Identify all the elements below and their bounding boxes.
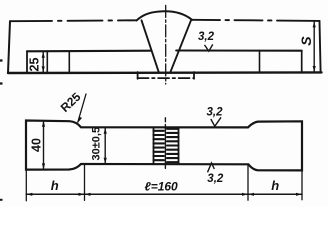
extension line left end bbox=[25, 171, 27, 201]
chain line: top surface of plate blank, left of weld cap bbox=[10, 19, 137, 22]
backing strip bottom (chain) bbox=[138, 77, 194, 79]
dimension 30±0,5 line bbox=[104, 128, 106, 163]
dimension line h / l=160 / h bbox=[26, 193, 302, 195]
check mark (top view) bbox=[205, 44, 213, 51]
svg-text:40: 40 bbox=[30, 138, 44, 152]
svg-text:3,2: 3,2 bbox=[207, 107, 224, 119]
svg-text:S: S bbox=[298, 36, 314, 46]
arrowheads h right bbox=[248, 193, 254, 196]
bottom line of plate / specimen strip bbox=[8, 71, 322, 74]
cut line at x=47 bbox=[46, 51, 48, 73]
specimen centerline (chain) bbox=[164, 118, 166, 169]
specimen strip left end bbox=[26, 51, 28, 73]
dimension S line bbox=[313, 22, 315, 71]
arrowheads dim S bbox=[313, 21, 316, 27]
extension line right fillet bbox=[247, 165, 249, 200]
arrowheads l=160 bbox=[85, 193, 91, 196]
page edge artifact upper bbox=[0, 61, 3, 84]
check mark (bottom view, below) bbox=[208, 163, 215, 172]
backing strip right edge bbox=[193, 72, 195, 79]
right edge of plate blank bbox=[320, 21, 321, 73]
cut line at x=259 bbox=[259, 51, 261, 73]
weld groove right edge bbox=[170, 20, 191, 72]
weld groove left edge bbox=[142, 20, 159, 72]
svg-text:30±0,5: 30±0,5 bbox=[91, 127, 103, 161]
dimension 25 line bbox=[42, 52, 44, 72]
specimen strip top edge, right of weld bbox=[176, 49, 302, 51]
svg-text:3,2: 3,2 bbox=[207, 173, 224, 185]
svg-text:3,2: 3,2 bbox=[198, 31, 215, 43]
cut line at x=69 bbox=[68, 51, 70, 73]
svg-text:h: h bbox=[51, 178, 59, 193]
svg-text:ℓ=160: ℓ=160 bbox=[145, 179, 179, 193]
specimen strip top edge, left of weld bbox=[27, 50, 151, 53]
arrowheads dim 30 bbox=[104, 128, 107, 134]
weld zone right edge bbox=[178, 127, 180, 164]
extension line right end bbox=[301, 170, 303, 199]
weld zone left edge bbox=[153, 127, 155, 164]
backing strip left edge bbox=[137, 72, 139, 79]
svg-text:25: 25 bbox=[27, 58, 41, 72]
left edge of plate bbox=[8, 21, 10, 73]
svg-text:h: h bbox=[271, 178, 279, 193]
chain line: top surface of plate blank, right of weld cap bbox=[192, 20, 320, 21]
arrowheads dim 40 bbox=[42, 121, 45, 127]
weld cap (reinforcement dome) bbox=[137, 11, 193, 20]
arrowheads dim 25 bbox=[42, 52, 45, 58]
dogbone specimen outline bbox=[26, 121, 302, 171]
check mark (bottom view, above) bbox=[211, 117, 221, 126]
extension line left fillet bbox=[84, 165, 86, 201]
weld zone hatching right column bbox=[167, 129, 179, 162]
arrowheads h left bbox=[26, 193, 32, 196]
weld zone hatching left column bbox=[154, 131, 164, 160]
weld centerline (chain) bbox=[165, 5, 167, 84]
specimen strip right end bbox=[301, 51, 303, 73]
page edge artifact lower bbox=[0, 199, 3, 201]
svg-text:R25: R25 bbox=[58, 90, 84, 115]
dimension 40 line bbox=[43, 121, 45, 169]
arrowhead R25 leader bbox=[78, 117, 82, 123]
R25 leader line bbox=[78, 94, 86, 122]
